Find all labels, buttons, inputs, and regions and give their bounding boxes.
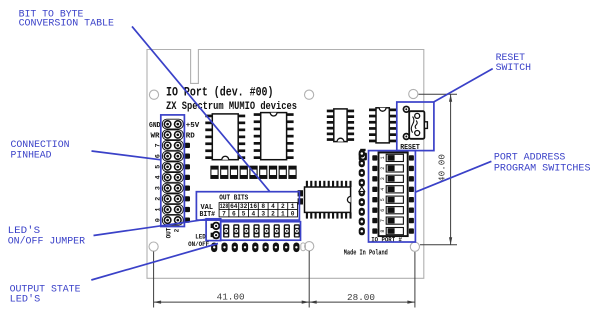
pinhead highlight box xyxy=(161,115,185,227)
svg-text:1: 1 xyxy=(291,203,295,210)
svg-text:2: 2 xyxy=(380,167,386,170)
annotation text: RESET SWITCH xyxy=(496,52,531,74)
mounting hole bottom-right xyxy=(410,242,419,251)
OUT BITS conversion table xyxy=(219,203,297,217)
svg-text:BIT#: BIT# xyxy=(200,211,216,219)
OUT BITS highlight box xyxy=(196,192,299,220)
LEDs highlight box xyxy=(221,222,301,241)
row of 9 SMD capacitor footprints below U1/U2 xyxy=(211,166,296,178)
pinhead right smd pads rows 3-10 xyxy=(185,143,190,223)
annotation text: PORT ADDRESS PROGRAM SWITCHES xyxy=(494,152,591,175)
pinhead data-bit labels 7..0 (rotated) xyxy=(155,143,162,222)
svg-text:1: 1 xyxy=(281,211,285,218)
mounting hole bottom-left xyxy=(149,242,158,251)
svg-text:8: 8 xyxy=(380,230,386,233)
IC U1 (DIP-14) xyxy=(205,114,245,160)
svg-text:7: 7 xyxy=(380,219,386,222)
mounting hole top-right xyxy=(409,89,418,98)
svg-text:5: 5 xyxy=(242,211,246,218)
annotation text: BIT TO BYTE CONVERSION TABLE xyxy=(19,8,114,29)
svg-text:1: 1 xyxy=(380,156,386,159)
svg-text:LED: LED xyxy=(195,233,206,240)
leader: output state leds xyxy=(91,244,218,281)
IC U2 (DIP-14) xyxy=(254,113,294,160)
svg-text:6: 6 xyxy=(380,209,386,212)
svg-text:OUT: OUT xyxy=(165,227,172,238)
svg-text:ON/OFF JUMPER: ON/OFF JUMPER xyxy=(8,236,86,248)
dimension line 41.00 / 28.00 xyxy=(154,301,415,303)
OUT BITS table numbers xyxy=(220,203,295,217)
LED on/off jumper JP1 pads xyxy=(211,222,221,240)
connection pinhead J1 row outlines xyxy=(162,119,183,225)
svg-text:PROGRAM SWITCHES: PROGRAM SWITCHES xyxy=(494,163,591,175)
2-pad SMD part right of OUT BITS table xyxy=(298,190,303,204)
leader: bit-to-byte table xyxy=(132,26,270,191)
svg-text:28.00: 28.00 xyxy=(347,292,375,303)
svg-text:7: 7 xyxy=(222,211,226,218)
svg-text:CONVERSION TABLE: CONVERSION TABLE xyxy=(19,18,114,30)
svg-text:0: 0 xyxy=(291,211,295,218)
svg-text:2: 2 xyxy=(271,211,275,218)
svg-text:PINHEAD: PINHEAD xyxy=(11,149,52,161)
output state LEDs D1-D8 xyxy=(223,224,300,237)
svg-text:WR: WR xyxy=(151,132,161,140)
IC U3 (DIP-12 small) xyxy=(327,109,354,142)
svg-text:LED'S: LED'S xyxy=(10,293,41,305)
mounting hole top-middle xyxy=(305,90,314,99)
svg-text:ZX Spectrum MUMIO devices: ZX Spectrum MUMIO devices xyxy=(166,101,297,113)
svg-text:16: 16 xyxy=(250,203,258,210)
annotation text: LED'S ON/OFF JUMPER xyxy=(8,225,86,247)
svg-text:2: 2 xyxy=(174,228,181,232)
dimension extension lines (right, 40.00) xyxy=(419,94,458,245)
svg-text:128: 128 xyxy=(220,203,229,210)
mounting hole bottom-middle xyxy=(305,242,314,251)
IC U5 (DIP-20 horizontal) xyxy=(305,181,352,219)
PCB board outline with top key slot xyxy=(147,50,424,279)
diode polarity triangle in pad column xyxy=(359,187,365,192)
dimension arrowheads right xyxy=(449,94,452,102)
dimension extension lines (bottom) xyxy=(154,251,415,308)
leader: connection pinhead xyxy=(92,151,161,160)
svg-text:32: 32 xyxy=(240,203,248,210)
connection pinhead J1 pads (2x10) xyxy=(164,121,181,224)
svg-text:41.00: 41.00 xyxy=(217,292,245,303)
leader: led on/off jumper xyxy=(94,219,207,235)
svg-text:5: 5 xyxy=(380,198,386,201)
svg-text:GND: GND xyxy=(149,122,161,130)
svg-text:4: 4 xyxy=(252,211,256,218)
svg-text:+5V: +5V xyxy=(186,122,200,130)
svg-text:2: 2 xyxy=(281,203,285,210)
dimension arrowheads bottom xyxy=(154,301,162,304)
DIP switch SW1 body (IO PORT #) xyxy=(379,153,408,237)
mounting hole top-left xyxy=(149,90,158,99)
jumper highlight box xyxy=(206,219,221,241)
svg-text:8: 8 xyxy=(261,203,265,210)
svg-text:3: 3 xyxy=(261,211,265,218)
reset switch highlight box xyxy=(397,102,434,151)
bottom pin row pads xyxy=(211,243,305,253)
annotation text: OUTPUT STATE LED'S xyxy=(10,284,81,306)
svg-text:6: 6 xyxy=(232,211,236,218)
reset switch SW2 body xyxy=(409,111,427,139)
svg-text:64: 64 xyxy=(230,203,238,210)
svg-text:OUT BITS: OUT BITS xyxy=(219,195,249,203)
svg-text:3: 3 xyxy=(380,177,386,180)
svg-text:RD: RD xyxy=(186,132,196,140)
annotation text: CONNECTION PINHEAD xyxy=(11,139,70,161)
svg-text:4: 4 xyxy=(380,188,386,191)
LED D9 below U4 xyxy=(359,149,367,161)
svg-text:Made In Poland: Made In Poland xyxy=(344,249,388,257)
leader: port address switches xyxy=(416,161,492,192)
svg-text:SWITCH: SWITCH xyxy=(496,62,531,74)
through-hole pad column left of SW1 xyxy=(359,150,365,236)
svg-text:40.00: 40.00 xyxy=(437,154,448,182)
svg-text:4: 4 xyxy=(271,203,275,210)
DIP switch SW1 positions 1-8 xyxy=(372,154,414,234)
svg-text:IO PORT #: IO PORT # xyxy=(371,236,402,244)
leader: reset switch xyxy=(434,69,493,102)
IC U4 (DIP-12 small) xyxy=(369,108,396,143)
DIP switch highlight box xyxy=(369,151,416,242)
reset switch pads xyxy=(403,106,420,141)
